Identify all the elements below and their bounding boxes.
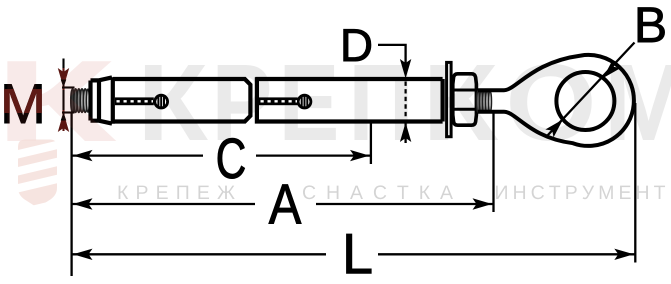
label D [344,29,371,61]
label C [218,138,245,178]
D dashed diameter line [405,82,407,120]
arrowhead C right [350,150,370,161]
arrowhead M bottom [58,113,69,133]
dimension line B (diagonal) [547,43,635,137]
label L [347,234,372,273]
washer [447,62,452,136]
sleeve 1 [113,77,251,124]
white dashed centerline sleeve 2 [261,100,298,102]
extension line A right [492,113,494,212]
watermark small text [119,185,665,199]
dimension line A [72,203,255,205]
arrowhead L right [614,249,634,260]
label M [5,84,42,123]
eye inner circle [556,72,614,130]
arrowhead M top [58,68,69,88]
D leader line [378,45,406,66]
maroon tint on label M (watermark overlap) [5,84,42,123]
watermark red letter K [7,61,116,141]
left thread (M) [71,89,90,113]
arrowhead A right [473,198,493,209]
arrowhead D bottom [400,123,411,143]
arrowhead L left [73,249,93,260]
anchor eye bolt drawing [71,55,634,146]
watermark big text KREPKOM gray part [145,64,671,141]
dimension line C [72,154,203,156]
arrowhead B lower [545,119,563,137]
sleeve 2 [255,77,442,123]
arrowhead A left [73,198,93,209]
dimension line L [72,253,326,255]
watermark logo screw icon [14,131,60,210]
slot band sleeve 2 [259,97,298,105]
hatch in hole circle 2 [302,95,308,107]
extension line left (shared C/A/L) [70,113,72,276]
arrowheads [58,59,634,260]
dimension/extension lines [62,43,635,277]
slot band sleeve 1 [115,97,154,105]
stud thread [477,91,492,113]
hex nut [453,74,477,125]
arrowhead D top [400,59,411,79]
arrowhead B upper [603,60,621,78]
eye shank and outer ring [478,55,634,146]
slot hole circle sleeve 1 [155,95,168,108]
extension line C right [370,124,372,165]
extension line L right [634,103,636,263]
slot hole circle sleeve 2 [298,95,311,108]
label B [638,8,665,42]
M dimension lines [62,59,75,132]
hatch in hole circle 1 [158,95,164,107]
white dashed centerline sleeve 1 [117,100,154,102]
label A [269,185,301,224]
arrowhead C left [73,150,93,161]
expander cone [91,77,113,123]
